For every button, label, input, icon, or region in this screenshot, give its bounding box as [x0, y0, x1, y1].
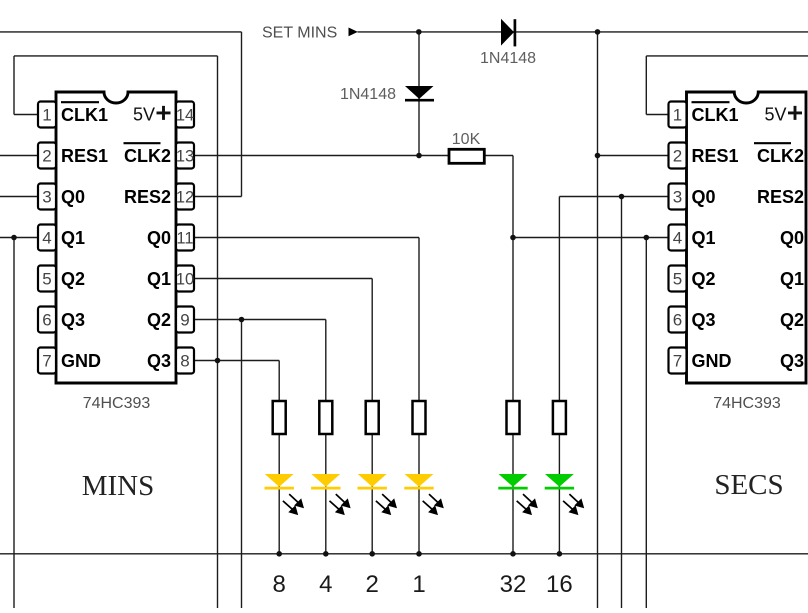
svg-text:9: 9: [180, 311, 189, 330]
svg-text:4: 4: [319, 571, 332, 598]
svg-text:Q0: Q0: [61, 187, 85, 207]
svg-text:Q1: Q1: [692, 228, 716, 248]
svg-text:GND: GND: [61, 351, 101, 371]
svg-text:Q0: Q0: [692, 187, 716, 207]
svg-text:32: 32: [500, 571, 527, 598]
svg-text:RES1: RES1: [61, 146, 108, 166]
svg-text:Q0: Q0: [147, 228, 171, 248]
svg-text:10K: 10K: [452, 131, 481, 148]
svg-text:5: 5: [42, 270, 51, 289]
svg-text:Q2: Q2: [780, 310, 804, 330]
svg-text:5V: 5V: [133, 104, 155, 124]
svg-text:1: 1: [673, 106, 682, 125]
svg-text:GND: GND: [692, 351, 732, 371]
svg-text:11: 11: [176, 230, 193, 248]
svg-text:8: 8: [180, 352, 189, 371]
svg-text:Q3: Q3: [61, 310, 85, 330]
svg-text:SECS: SECS: [714, 469, 783, 501]
svg-text:74HC393: 74HC393: [83, 395, 151, 412]
svg-text:74HC393: 74HC393: [713, 395, 781, 412]
svg-text:4: 4: [42, 229, 51, 248]
svg-text:3: 3: [42, 188, 51, 207]
svg-text:6: 6: [673, 311, 682, 330]
svg-text:Q0: Q0: [780, 228, 804, 248]
svg-text:RES1: RES1: [692, 146, 739, 166]
svg-text:SET MINS: SET MINS: [262, 25, 337, 42]
svg-text:1N4148: 1N4148: [480, 50, 536, 67]
svg-text:10: 10: [176, 271, 194, 289]
svg-text:Q3: Q3: [780, 351, 804, 371]
svg-text:CLK1: CLK1: [61, 105, 108, 125]
svg-text:RES2: RES2: [757, 187, 804, 207]
svg-text:Q2: Q2: [61, 269, 85, 289]
svg-text:7: 7: [42, 352, 51, 371]
svg-text:Q1: Q1: [147, 269, 171, 289]
svg-text:2: 2: [673, 147, 682, 166]
svg-text:5V: 5V: [765, 104, 787, 124]
svg-text:8: 8: [273, 571, 286, 598]
svg-text:CLK2: CLK2: [757, 146, 804, 166]
svg-text:1: 1: [412, 571, 425, 598]
svg-text:RES2: RES2: [124, 187, 171, 207]
svg-text:Q2: Q2: [147, 310, 171, 330]
svg-text:6: 6: [42, 311, 51, 330]
svg-text:Q1: Q1: [61, 228, 85, 248]
svg-text:7: 7: [673, 352, 682, 371]
svg-text:MINS: MINS: [82, 470, 155, 502]
svg-text:Q1: Q1: [780, 269, 804, 289]
svg-text:2: 2: [366, 571, 379, 598]
svg-text:Q3: Q3: [147, 351, 171, 371]
svg-text:14: 14: [176, 107, 194, 125]
svg-text:Q3: Q3: [692, 310, 716, 330]
svg-text:2: 2: [42, 147, 51, 166]
svg-text:4: 4: [673, 229, 682, 248]
svg-text:Q2: Q2: [692, 269, 716, 289]
svg-text:12: 12: [176, 189, 194, 207]
svg-text:16: 16: [546, 571, 573, 598]
svg-text:3: 3: [673, 188, 682, 207]
svg-text:CLK2: CLK2: [124, 146, 171, 166]
svg-text:13: 13: [176, 148, 194, 166]
svg-text:5: 5: [673, 270, 682, 289]
svg-text:1: 1: [42, 106, 51, 125]
svg-text:1N4148: 1N4148: [340, 86, 396, 103]
svg-text:CLK1: CLK1: [692, 105, 739, 125]
